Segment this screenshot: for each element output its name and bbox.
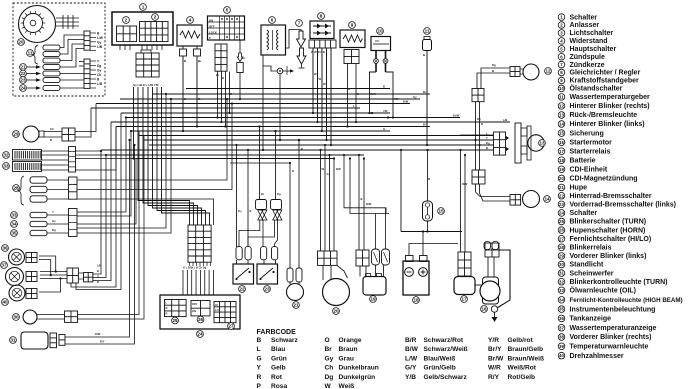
svg-text:FARBCODE: FARBCODE <box>257 329 297 336</box>
svg-text:LOCK: LOCK <box>209 31 217 35</box>
svg-text:5: 5 <box>226 8 229 13</box>
connector strip upper <box>84 31 90 50</box>
svg-text:Gy L/B B L L/W Y/R: Gy L/B B L L/W Y/R <box>133 83 159 87</box>
switch 5 leads <box>217 72 219 118</box>
svg-text:B: B <box>292 169 294 173</box>
svg-text:12: 12 <box>559 104 564 109</box>
svg-text:34: 34 <box>559 297 564 302</box>
svg-text:Rück-/Bremsleuchte: Rück-/Bremsleuchte <box>570 112 638 119</box>
svg-text:B/R: B/R <box>405 337 417 344</box>
connector grid 2 left <box>117 26 137 42</box>
svg-text:R: R <box>301 147 303 151</box>
label 11 brace <box>27 50 34 57</box>
svg-text:R/Y: R/Y <box>100 340 105 344</box>
svg-text:Dg: Dg <box>325 374 334 381</box>
gauge harness hooks <box>93 150 101 274</box>
svg-text:26: 26 <box>198 317 204 322</box>
starter motor 16 <box>483 277 499 304</box>
coil trio connector <box>69 177 78 199</box>
wire stubs from flywheel <box>56 17 79 19</box>
oil switch prongs <box>375 51 377 59</box>
svg-text:Rosa: Rosa <box>271 383 287 389</box>
switch feeds <box>236 145 238 247</box>
svg-text:Instrumentenbeleuchtung: Instrumentenbeleuchtung <box>570 306 656 313</box>
svg-text:39: 39 <box>559 344 564 349</box>
svg-text:Br/W: Br/W <box>453 114 460 118</box>
svg-text:Gy: Gy <box>238 209 242 213</box>
svg-text:36: 36 <box>2 246 8 251</box>
labels 30 31 lamps <box>11 212 18 219</box>
rear brake switch 22 <box>233 264 254 284</box>
coil 6 step lead to plug <box>263 55 277 71</box>
svg-text:Dunkelgrün: Dunkelgrün <box>339 374 376 381</box>
svg-text:17: 17 <box>461 297 467 302</box>
svg-text:CDI-Magnetzündung: CDI-Magnetzündung <box>570 176 638 183</box>
svg-text:Hupe: Hupe <box>570 185 588 192</box>
CDI jog bridges <box>344 155 386 214</box>
svg-text:Gelb: Gelb <box>271 365 286 372</box>
sender 9 leads <box>347 64 349 127</box>
wire pair to bulb 14 <box>476 184 511 197</box>
connector under 9 <box>344 50 359 64</box>
svg-text:Blau: Blau <box>271 346 285 353</box>
svg-text:Ölstandschalter: Ölstandschalter <box>570 84 623 93</box>
ignition coil 6 (Zuendspule) <box>269 17 276 24</box>
svg-text:31: 31 <box>10 338 16 343</box>
svg-text:Y/R: Y/R <box>383 109 388 113</box>
svg-text:W: W <box>325 383 332 389</box>
svg-text:Schwarz: Schwarz <box>271 337 298 344</box>
svg-text:30: 30 <box>559 262 564 267</box>
svg-text:Dg: Dg <box>52 228 56 232</box>
svg-text:OFF: OFF <box>209 25 215 29</box>
svg-text:Gelb/rot: Gelb/rot <box>508 337 534 344</box>
svg-text:7: 7 <box>298 21 301 26</box>
gauge connectors <box>26 253 37 263</box>
svg-text:Tankanzeige: Tankanzeige <box>570 316 612 323</box>
tachometer 40 <box>9 285 25 301</box>
horn switch grid 26 <box>191 301 210 316</box>
dc bus wires <box>401 231 462 233</box>
svg-text:Gelb/Schwarz: Gelb/Schwarz <box>424 374 468 381</box>
svg-text:B: B <box>50 138 52 142</box>
svg-text:B/W: B/W <box>403 100 409 104</box>
dimmer switch grid 27 <box>214 302 236 323</box>
svg-text:30: 30 <box>13 315 19 320</box>
fuse leads <box>427 150 429 201</box>
svg-text:Schwarz/Rot: Schwarz/Rot <box>424 337 464 344</box>
bullet connector feeds <box>259 127 261 200</box>
wires into 13 <box>460 134 494 136</box>
svg-text:B: B <box>97 280 99 284</box>
svg-text:B: B <box>97 269 99 273</box>
svg-text:12: 12 <box>545 69 551 74</box>
leads down from connector <box>475 102 477 170</box>
svg-text:ON: ON <box>209 19 213 23</box>
svg-text:Braun/Weiß: Braun/Weiß <box>508 355 545 362</box>
svg-text:Gy: Gy <box>325 355 334 362</box>
rectifier/regulator 8 <box>318 13 325 20</box>
svg-text:Y/R: Y/R <box>488 337 499 344</box>
tail brake light 13 <box>494 132 506 155</box>
inline diode 5a <box>239 40 241 53</box>
inline connector for 12 <box>472 89 484 102</box>
svg-text:L/B: L/B <box>503 118 507 122</box>
CDI magneto flywheel <box>19 6 56 43</box>
svg-text:B/W: B/W <box>366 202 372 206</box>
svg-text:32: 32 <box>559 279 564 284</box>
svg-text:R/W: R/W <box>462 182 468 186</box>
svg-text:16: 16 <box>481 307 487 312</box>
svg-text:G: G <box>383 127 385 131</box>
svg-text:G: G <box>97 275 99 279</box>
svg-text:G/Y: G/Y <box>405 365 417 372</box>
svg-text:P: P <box>257 383 262 389</box>
svg-text:Br/Y: Br/Y <box>488 346 502 353</box>
svg-text:Ölwarnleuchte (OIL): Ölwarnleuchte (OIL) <box>570 286 637 295</box>
svg-text:2: 2 <box>154 15 157 20</box>
svg-text:10: 10 <box>377 29 383 34</box>
svg-text:L/W: L/W <box>405 355 418 362</box>
svg-text:40: 40 <box>2 300 8 305</box>
lamp 30 connector <box>65 311 78 322</box>
svg-text:Br: Br <box>423 90 426 94</box>
svg-text:Vorderer Blinker (rechts): Vorderer Blinker (rechts) <box>570 334 652 341</box>
svg-text:CDI-Einheit: CDI-Einheit <box>570 167 608 174</box>
svg-text:17: 17 <box>559 149 564 154</box>
svg-text:Y: Y <box>486 136 488 140</box>
svg-text:B: B <box>357 92 359 96</box>
svg-text:Br: Br <box>325 346 333 353</box>
svg-text:28: 28 <box>13 186 19 191</box>
svg-text:19: 19 <box>370 297 376 302</box>
relay connector <box>458 252 471 276</box>
svg-text:21: 21 <box>559 185 564 190</box>
svg-text:Grün: Grün <box>271 355 287 362</box>
svg-text:HI: HI <box>215 303 218 307</box>
svg-text:22: 22 <box>20 71 26 76</box>
svg-text:20: 20 <box>333 309 339 314</box>
svg-text:25: 25 <box>559 219 564 224</box>
CDI leads <box>358 155 360 250</box>
bullet connectors above 23 <box>256 200 267 210</box>
motor feed connectors <box>485 243 499 257</box>
horn feed wires <box>230 163 290 268</box>
svg-text:Br: Br <box>242 56 245 60</box>
svg-text:Vorderrad-Bremsschalter (links: Vorderrad-Bremsschalter (links) <box>570 202 676 209</box>
svg-text:G: G <box>257 355 262 362</box>
svg-text:Lichtschalter: Lichtschalter <box>570 30 614 37</box>
svg-text:33: 33 <box>11 213 17 218</box>
svg-text:11: 11 <box>425 29 430 34</box>
svg-text:32: 32 <box>3 153 9 158</box>
pins under box 1 <box>119 45 121 50</box>
svg-text:Drehzahlmesser: Drehzahlmesser <box>570 353 624 360</box>
magneto connector <box>318 251 338 265</box>
svg-text:Hinterrad-Bremsschalter: Hinterrad-Bremsschalter <box>570 193 652 200</box>
svg-text:29: 29 <box>559 254 564 259</box>
svg-text:Hupenschalter (HORN): Hupenschalter (HORN) <box>570 227 646 234</box>
svg-text:Dg: Dg <box>277 192 281 196</box>
label 28 coil group <box>13 185 20 192</box>
svg-text:Schalter: Schalter <box>570 14 598 21</box>
svg-text:Blinkerrelais: Blinkerrelais <box>570 245 612 252</box>
svg-text:B/W: B/W <box>371 92 377 96</box>
svg-text:24: 24 <box>559 211 564 216</box>
svg-text:Y: Y <box>52 210 54 214</box>
svg-text:Ch: Ch <box>97 73 101 77</box>
headlight wires <box>65 140 130 337</box>
svg-text:22: 22 <box>239 287 245 292</box>
svg-text:Hauptschalter: Hauptschalter <box>570 46 617 53</box>
svg-text:B: B <box>184 97 186 101</box>
connector grid 2 right <box>140 22 169 42</box>
ignition coil windings <box>43 45 60 50</box>
svg-text:R/W: R/W <box>95 332 101 336</box>
instrument cluster assembly (dashed enclosure) <box>13 3 105 96</box>
svg-text:20: 20 <box>18 40 24 45</box>
inline connector above 14 <box>472 170 485 184</box>
main switch unit box 1 <box>112 12 173 45</box>
svg-text:Braun/Gelb: Braun/Gelb <box>508 346 544 353</box>
svg-text:Vorderer Blinker (links): Vorderer Blinker (links) <box>570 253 647 260</box>
svg-text:R: R <box>428 177 430 181</box>
svg-text:Br/W: Br/W <box>488 355 504 362</box>
svg-text:28: 28 <box>559 245 564 250</box>
relay vertical feed pair <box>460 150 462 252</box>
svg-text:B: B <box>481 122 483 126</box>
coil 6 leads down <box>279 74 281 140</box>
svg-text:22: 22 <box>559 193 564 198</box>
svg-text:B: B <box>492 69 494 73</box>
svg-text:Gy: Gy <box>97 41 101 45</box>
svg-text:B: B <box>486 146 488 150</box>
svg-text:25: 25 <box>172 318 178 323</box>
svg-text:23: 23 <box>264 287 270 292</box>
labels with arrows to coils <box>20 64 27 71</box>
connector strip lower <box>84 59 90 88</box>
resistor 4 leads <box>182 56 184 131</box>
svg-text:6: 6 <box>271 18 274 23</box>
svg-text:38: 38 <box>559 335 564 340</box>
multi-pin connector under box 1 <box>141 50 151 53</box>
svg-text:Sicherung: Sicherung <box>570 130 604 137</box>
handlebar switch unit 24 <box>160 295 240 329</box>
svg-text:Gleichrichter / Regler: Gleichrichter / Regler <box>570 70 641 77</box>
front turn signal left 29 bulb <box>23 126 39 142</box>
svg-text:Starterrelais: Starterrelais <box>570 148 611 155</box>
switch capsule stubs <box>236 260 238 264</box>
svg-text:4: 4 <box>189 18 192 23</box>
svg-text:14: 14 <box>544 197 550 202</box>
label 20 <box>18 39 25 46</box>
svg-text:Ch: Ch <box>325 365 334 372</box>
svg-text:Braun: Braun <box>339 346 358 353</box>
svg-text:Br: Br <box>198 97 201 101</box>
svg-text:14: 14 <box>559 122 564 127</box>
svg-text:Dg: Dg <box>492 63 496 67</box>
svg-text:Fernlichtschalter (HI/LO): Fernlichtschalter (HI/LO) <box>570 236 652 243</box>
legend list <box>558 14 682 360</box>
svg-text:Dunkelbraun: Dunkelbraun <box>339 365 379 372</box>
svg-text:G L B/W L B Ch Dg: G L B/W L B Ch Dg <box>183 266 207 270</box>
instrument lamp sticks <box>30 212 47 217</box>
svg-text:L: L <box>257 346 261 353</box>
svg-text:W W W R B: W W W R B <box>311 50 325 54</box>
connector under 8 <box>309 40 336 48</box>
svg-text:Weiß/Rot: Weiß/Rot <box>508 365 537 372</box>
svg-text:B/R: B/R <box>336 167 341 171</box>
plug terminal node <box>277 68 283 74</box>
gauge mid connectors <box>67 268 78 283</box>
svg-text:Schalter: Schalter <box>570 210 598 217</box>
svg-text:40: 40 <box>559 353 564 358</box>
svg-text:Kraftstoffstandgeber: Kraftstoffstandgeber <box>570 78 640 85</box>
main switch 5 (Hauptschalter) contact table <box>224 7 231 14</box>
svg-text:Zündspule: Zündspule <box>570 54 605 61</box>
svg-text:37: 37 <box>1 263 7 268</box>
svg-text:G: G <box>348 87 350 91</box>
main bus wires <box>121 112 390 114</box>
fuel level sender 9 (resistive) <box>349 22 356 29</box>
pin stubs connector 24 <box>189 262 191 266</box>
fuse 15 (Sicherung) <box>423 201 433 221</box>
coil to strip wires <box>60 35 84 48</box>
svg-text:Grün/Gelb: Grün/Gelb <box>424 365 456 372</box>
stick connector strip <box>69 209 78 237</box>
svg-text:Zündkerze: Zündkerze <box>570 62 605 69</box>
svg-text:ON: ON <box>192 309 196 313</box>
svg-text:27: 27 <box>228 324 234 329</box>
svg-text:21: 21 <box>293 303 299 308</box>
svg-text:24: 24 <box>20 86 26 91</box>
oil switch leads <box>370 72 377 113</box>
svg-text:OFF: OFF <box>192 302 198 306</box>
indicator coil trio <box>30 177 47 183</box>
svg-text:Gy: Gy <box>97 69 101 73</box>
svg-text:Grau: Grau <box>339 355 354 362</box>
svg-text:R: R <box>166 312 168 316</box>
svg-text:18: 18 <box>413 298 419 303</box>
svg-text:Dg: Dg <box>477 117 481 121</box>
water temp gauge 37 <box>6 268 24 286</box>
svg-text:Widerstand: Widerstand <box>570 38 608 45</box>
svg-text:36: 36 <box>559 316 564 321</box>
svg-text:B: B <box>361 197 363 201</box>
rectifier 8 leads <box>312 48 314 113</box>
junction dots <box>182 130 184 132</box>
svg-text:Batterie: Batterie <box>570 157 596 164</box>
svg-text:Anlasser: Anlasser <box>570 22 600 29</box>
svg-text:33: 33 <box>3 164 9 169</box>
svg-text:Y: Y <box>257 365 262 372</box>
svg-text:Ch: Ch <box>50 127 54 131</box>
svg-text:Wassertemperaturgeber: Wassertemperaturgeber <box>570 94 651 101</box>
rear turn signal left 14 bulb <box>523 191 540 208</box>
svg-text:Hinterer Blinker (rechts): Hinterer Blinker (rechts) <box>570 103 650 110</box>
ground symbol <box>494 312 496 317</box>
svg-text:Gy: Gy <box>413 95 417 99</box>
switch 32 striped block <box>3 152 10 159</box>
spark plug 7 (Zuendkerze) <box>296 20 303 27</box>
wires connector to box 24 <box>182 270 184 295</box>
svg-text:R: R <box>257 374 262 381</box>
headlight connectors <box>50 333 57 348</box>
svg-text:W/R: W/R <box>488 365 501 372</box>
horn terminals <box>287 268 293 282</box>
headlight 31 <box>21 332 48 349</box>
magneto link wire <box>337 266 348 279</box>
svg-text:31: 31 <box>559 271 564 276</box>
svg-text:B/W: B/W <box>405 346 419 353</box>
water temperature sender 11 <box>424 28 431 35</box>
connector under switch 5 <box>215 44 227 71</box>
tank gauge 36 <box>9 249 25 265</box>
svg-text:16: 16 <box>559 140 564 145</box>
color code table <box>257 329 545 389</box>
svg-text:13: 13 <box>539 141 545 146</box>
svg-text:Gy: Gy <box>327 172 331 176</box>
svg-text:Rot/Gelb: Rot/Gelb <box>508 374 535 381</box>
battery 18 <box>403 261 429 295</box>
svg-text:L/B: L/B <box>97 82 103 86</box>
svg-text:2: 2 <box>125 18 128 23</box>
svg-text:11: 11 <box>559 95 564 100</box>
svg-text:Orange: Orange <box>339 337 362 344</box>
svg-text:B: B <box>222 76 224 80</box>
svg-text:Standlicht: Standlicht <box>570 262 605 269</box>
svg-text:B: B <box>250 209 252 213</box>
switch terminal capsules <box>236 247 242 260</box>
svg-text:R/Y: R/Y <box>488 374 500 381</box>
svg-text:Hinterer Blinker (links): Hinterer Blinker (links) <box>570 121 645 128</box>
svg-text:B/Y: B/Y <box>423 123 428 127</box>
svg-text:Fernlicht-Kontrolleuchte (HIGH: Fernlicht-Kontrolleuchte (HIGH BEAM) <box>570 297 683 304</box>
svg-text:Dg: Dg <box>486 141 490 145</box>
horn 21 (Hupe) <box>287 284 304 301</box>
svg-text:B: B <box>257 337 262 344</box>
svg-text:13: 13 <box>559 113 564 118</box>
svg-text:34: 34 <box>11 222 17 227</box>
svg-text:9: 9 <box>351 23 354 28</box>
svg-text:B: B <box>230 92 232 96</box>
oil level switch 10 <box>377 28 384 35</box>
svg-text:1: 1 <box>142 5 145 10</box>
svg-text:20: 20 <box>559 176 564 181</box>
svg-text:24: 24 <box>197 332 203 337</box>
svg-text:33: 33 <box>559 288 564 293</box>
svg-text:10: 10 <box>559 86 564 91</box>
svg-text:Br: Br <box>261 192 264 196</box>
resistor 4 (Widerstand) <box>187 17 194 24</box>
svg-text:O: O <box>325 337 330 344</box>
turn switch grid 25 <box>165 300 187 317</box>
svg-text:Blinkerkontrolleuchte (TURN): Blinkerkontrolleuchte (TURN) <box>570 279 668 286</box>
svg-text:Y/B: Y/B <box>394 97 399 101</box>
svg-text:Gy: Gy <box>52 219 56 223</box>
svg-text:LO: LO <box>215 308 219 312</box>
svg-text:Weiß: Weiß <box>339 383 355 389</box>
switch 33 striped block <box>3 163 10 170</box>
svg-text:L/B: L/B <box>97 264 101 268</box>
svg-text:Blinkerschalter (TURN): Blinkerschalter (TURN) <box>570 219 647 226</box>
svg-text:B: B <box>383 85 385 89</box>
position lamp 30 <box>23 310 37 324</box>
wire pair to bulb 12 <box>481 68 510 89</box>
svg-text:21: 21 <box>20 65 26 70</box>
harness wires from box 1 connector <box>133 87 135 159</box>
CDI unit 19 <box>363 277 386 296</box>
